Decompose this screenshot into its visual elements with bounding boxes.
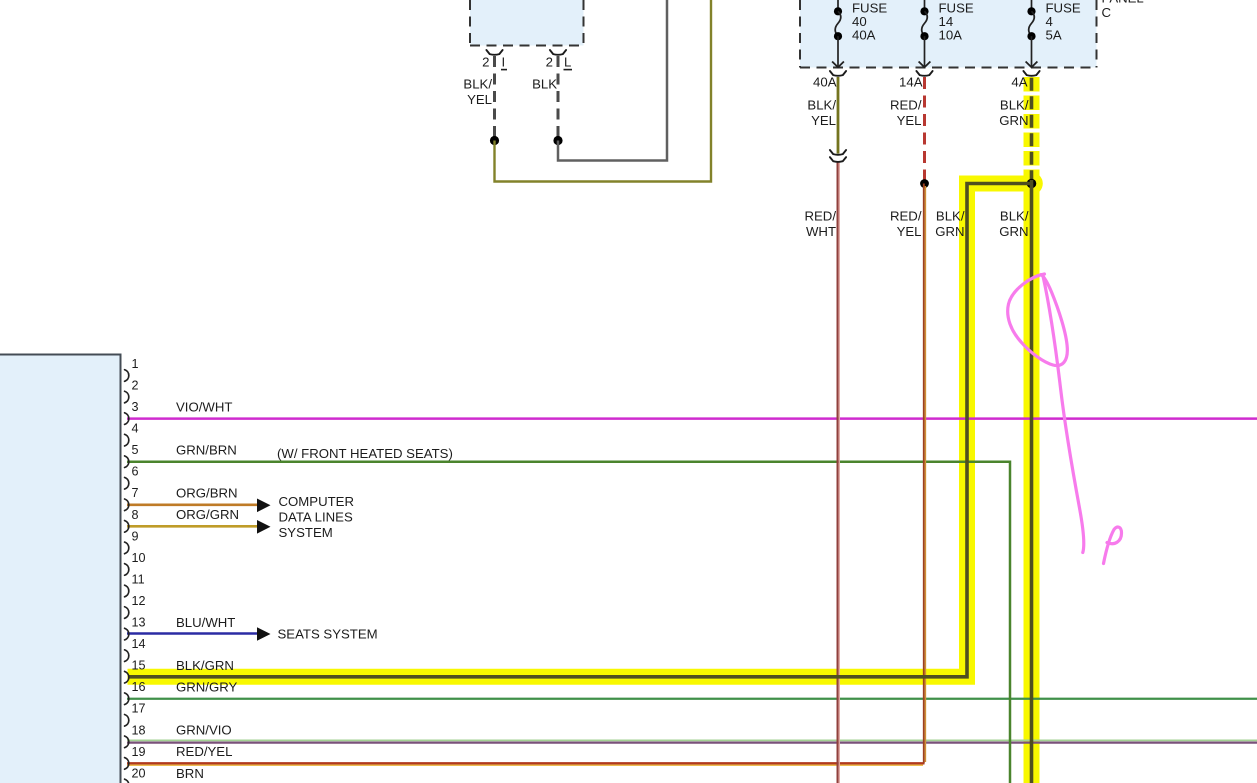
fuse value label FUSE 4 5A [1046, 0, 1081, 42]
svg-text:8: 8 [132, 508, 139, 522]
svg-text:15: 15 [132, 659, 146, 673]
arrow to computer data lines system (pin 7) [257, 499, 271, 513]
wire GRN/VIO pin 18 horizontal (green half) [127, 739, 1257, 741]
wire color label BLK/YEL (top-left) [463, 76, 492, 107]
svg-text:40A: 40A [813, 74, 837, 89]
svg-text:13: 13 [132, 616, 146, 630]
connector pin 15 terminal arc [125, 671, 129, 683]
svg-text:2: 2 [546, 55, 553, 70]
svg-text:BLK/: BLK/ [463, 76, 492, 91]
connector pin 20 terminal arc [125, 779, 129, 783]
svg-text:5A: 5A [1046, 28, 1062, 43]
pin terminal cup 2-L [550, 50, 566, 55]
svg-text:DATA LINES: DATA LINES [279, 510, 353, 525]
svg-text:5: 5 [132, 443, 139, 457]
wire RED/YEL vertical to pin 19 (red half) [923, 184, 925, 764]
wire RED/YEL dashed from fuse 14 [923, 77, 926, 181]
wire GRN/GRY pin 16 horizontal [127, 698, 1257, 700]
component box top-left (dashed, cut at top) [470, 0, 584, 46]
wire RED/YEL pin 19 horizontal (red half) [127, 762, 925, 764]
svg-text:(W/ FRONT HEATED SEATS): (W/ FRONT HEATED SEATS) [277, 446, 453, 461]
fuse 40 output terminal cup [830, 71, 846, 76]
svg-text:C: C [1102, 5, 1112, 20]
svg-text:10A: 10A [939, 28, 963, 43]
wire color label BLK/GRN (below fuse box) [999, 98, 1029, 129]
connector pin 9 terminal arc [125, 542, 129, 554]
svg-text:BLK/: BLK/ [1000, 98, 1029, 113]
svg-text:YEL: YEL [467, 92, 492, 107]
svg-text:RED/YEL: RED/YEL [176, 744, 232, 759]
connector pin 2 terminal arc [125, 391, 129, 403]
connector pin 4 terminal arc [125, 434, 129, 446]
svg-text:4A: 4A [1011, 74, 1027, 89]
wire BLK dashed from pin L [557, 56, 560, 137]
svg-text:BLK/GRN: BLK/GRN [176, 658, 234, 673]
svg-text:10: 10 [132, 551, 146, 565]
junction splice dot BLK/YEL [490, 136, 499, 145]
svg-text:6: 6 [132, 465, 139, 479]
svg-text:GRN/BRN: GRN/BRN [176, 443, 237, 458]
wire BLK/YEL from fuse 40 [837, 77, 840, 154]
connector module box left (solid border) [0, 355, 121, 783]
label PANEL C [1102, 0, 1144, 20]
hand-drawn pink loop annotation [1008, 274, 1068, 366]
fuse panel C box (dashed) [800, 0, 1097, 68]
svg-text:2: 2 [482, 55, 489, 70]
highlighter halo at junction [1020, 172, 1043, 195]
inline connector lower cup [830, 157, 846, 162]
svg-text:16: 16 [132, 680, 146, 694]
fuse 14 10A [919, 0, 931, 67]
junction splice dot RED/YEL [920, 179, 929, 188]
inline connector upper cup [830, 150, 846, 155]
svg-text:3: 3 [132, 400, 139, 414]
wire BLK/GRN branch to pin 15 (highlighted) [128, 184, 1032, 677]
connector pin 17 terminal arc [125, 715, 129, 727]
hand-drawn pink letter P [1104, 527, 1122, 564]
connector pin 18 terminal arc [125, 736, 129, 748]
svg-text:SYSTEM: SYSTEM [279, 525, 333, 540]
fuse 40 40A [832, 0, 844, 67]
svg-text:19: 19 [132, 745, 146, 759]
fuse 4 5A [1026, 0, 1038, 67]
svg-text:YEL: YEL [897, 224, 922, 239]
svg-text:40A: 40A [852, 28, 876, 43]
connector pin 7 terminal arc [125, 499, 129, 511]
svg-text:11: 11 [132, 572, 145, 586]
svg-text:9: 9 [132, 529, 139, 543]
svg-text:BLK/: BLK/ [807, 98, 836, 113]
wire color label BLK/GRN (mid) [935, 209, 965, 240]
svg-text:18: 18 [132, 723, 146, 737]
svg-text:YEL: YEL [897, 113, 922, 128]
wire BLK solid loop up [558, 0, 667, 161]
svg-text:VIO/WHT: VIO/WHT [176, 399, 232, 414]
wire RED/YEL pin 19 horizontal (yellow half) [127, 764, 923, 766]
wire RED/YEL vertical to pin 19 (yellow half) [924, 186, 926, 762]
connector pin 11 terminal arc [125, 585, 129, 597]
fuse value label FUSE 14 10A [939, 0, 974, 42]
wire color label BLK/GRN (mid) [999, 209, 1029, 240]
connector pin 16 terminal arc [125, 693, 129, 705]
wire BLK/GRN vertical main (highlighted) [1030, 180, 1034, 783]
wire ORG/GRN pin 8 [127, 525, 258, 528]
junction splice dot BLK [553, 136, 562, 145]
svg-text:RED/: RED/ [890, 98, 922, 113]
wire BLK/GRN dashed from fuse 4 [1030, 78, 1034, 180]
fuse 14 output terminal cup [916, 71, 932, 76]
highlighter band branch to pin 15 [128, 184, 1032, 677]
svg-text:BLK/: BLK/ [936, 209, 965, 224]
label COMPUTER DATA LINES SYSTEM [279, 494, 354, 540]
svg-text:GRN: GRN [999, 224, 1028, 239]
fuse value label FUSE 40 40A [852, 0, 887, 42]
connector pin 19 terminal arc [125, 758, 129, 770]
arrow to seats system (pin 13) [257, 627, 271, 641]
terminal label L underlined [564, 55, 573, 70]
connector pin 1 terminal arc [125, 370, 129, 382]
svg-text:20: 20 [132, 766, 146, 780]
svg-text:BLU/WHT: BLU/WHT [176, 615, 235, 630]
svg-text:GRN: GRN [935, 224, 964, 239]
connector pin 8 terminal arc [125, 521, 129, 533]
svg-text:2: 2 [132, 378, 139, 392]
wire BLK/YEL solid loop up [495, 0, 712, 182]
svg-text:BLK/: BLK/ [1000, 209, 1029, 224]
svg-text:17: 17 [132, 702, 146, 716]
connector pin 5 terminal arc [125, 456, 129, 468]
wire BLK/YEL dashed from pin I [493, 56, 496, 137]
connector pin 12 terminal arc [125, 607, 129, 619]
svg-text:12: 12 [132, 594, 146, 608]
svg-text:YEL: YEL [811, 113, 836, 128]
svg-text:L: L [564, 55, 571, 70]
connector pin 14 terminal arc [125, 650, 129, 662]
wire BLU/WHT pin 13 [127, 632, 258, 635]
svg-text:7: 7 [132, 486, 139, 500]
connector pin 10 terminal arc [125, 564, 129, 576]
svg-text:SEATS SYSTEM: SEATS SYSTEM [278, 627, 378, 642]
highlighter band dashed BLK/GRN fuse4 drop [1024, 77, 1040, 180]
svg-text:ORG/GRN: ORG/GRN [176, 507, 239, 522]
wire color label BLK/YEL (below fuse box) [807, 98, 836, 129]
svg-text:ORG/BRN: ORG/BRN [176, 486, 238, 501]
junction splice dot BLK/GRN [1027, 179, 1037, 189]
svg-text:WHT: WHT [806, 224, 836, 239]
wire RED/WHT vertical (white half fringe) [838, 161, 840, 783]
highlighter band vertical BLK/GRN right [1024, 176, 1040, 783]
pin terminal cup 2-I [486, 50, 502, 55]
wire GRN/BRN pin 5 to vertical drop [127, 462, 1010, 783]
svg-text:BRN: BRN [176, 766, 204, 781]
wire color label RED/WHT (mid) [804, 209, 836, 240]
svg-text:BLK: BLK [532, 76, 557, 91]
wire RED/WHT vertical (red half) [836, 161, 838, 783]
wire color label RED/YEL (mid) [890, 209, 922, 240]
wire VIO/WHT pin 3 horizontal [127, 417, 1257, 420]
svg-text:GRN/VIO: GRN/VIO [176, 723, 232, 738]
svg-text:GRN: GRN [999, 113, 1028, 128]
fuse 4 output terminal cup [1023, 71, 1039, 76]
svg-text:14: 14 [132, 637, 146, 651]
connector pin 3 terminal arc [125, 413, 129, 425]
wire color label RED/YEL (below fuse box) [890, 98, 922, 129]
connector pin 13 terminal arc [125, 628, 129, 640]
connector pin 6 terminal arc [125, 477, 129, 489]
wire GRN/VIO pin 18 horizontal (violet half) [127, 741, 1257, 743]
terminal label I underlined [501, 55, 507, 70]
svg-text:COMPUTER: COMPUTER [279, 494, 354, 509]
svg-text:4: 4 [132, 422, 139, 436]
arrow to computer data lines system (pin 8) [257, 520, 271, 534]
wire ORG/BRN pin 7 [127, 503, 258, 506]
hand-drawn pink tail line [1043, 276, 1084, 553]
svg-text:1: 1 [132, 357, 139, 371]
svg-text:GRN/GRY: GRN/GRY [176, 680, 238, 695]
svg-text:RED/: RED/ [804, 209, 836, 224]
svg-text:I: I [502, 55, 506, 70]
svg-text:RED/: RED/ [890, 209, 922, 224]
svg-text:14A: 14A [899, 74, 923, 89]
